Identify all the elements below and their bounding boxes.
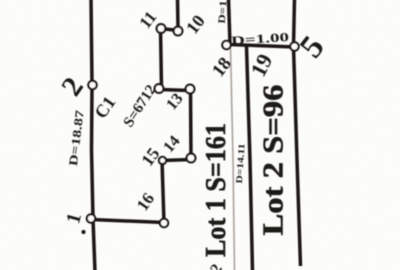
node 13 xyxy=(186,85,195,94)
wire right vertical through point 5 xyxy=(294,0,301,266)
wire segment 1-16 xyxy=(91,220,165,223)
wire segment 15-14 xyxy=(162,160,192,161)
node 1 xyxy=(87,214,95,222)
wire segment 12-13 xyxy=(160,90,191,91)
node 10 xyxy=(174,27,183,36)
node 15 xyxy=(159,157,166,164)
node 14 xyxy=(187,154,196,163)
svg-text:Lot 1 S=161: Lot 1 S=161 xyxy=(201,123,232,257)
node 5 xyxy=(290,42,298,50)
svg-text:D=1: D=1 xyxy=(217,0,230,24)
wire left boundary line through points 2 and 1 xyxy=(91,0,95,270)
wire faint lot division line xyxy=(231,48,235,270)
node 12 xyxy=(155,84,164,93)
wire segment 15-16 xyxy=(162,161,164,224)
node 2 xyxy=(88,81,96,89)
wire middle vertical from node 19 to bottom xyxy=(247,47,253,270)
wire segment 18-5 xyxy=(230,45,296,48)
wire top segment into point 18 xyxy=(229,0,231,45)
wire segment 13-14 xyxy=(189,90,193,159)
wire top segment into point 10 xyxy=(176,0,180,29)
svg-text:Lot 2 S=96: Lot 2 S=96 xyxy=(259,85,290,236)
node 18 xyxy=(222,41,230,49)
node 16 xyxy=(160,219,168,227)
ink dot near point 1 xyxy=(81,230,85,234)
wire segment 11-10 xyxy=(160,29,179,31)
node 11 xyxy=(157,24,166,33)
wire segment 11-12 xyxy=(161,29,162,90)
